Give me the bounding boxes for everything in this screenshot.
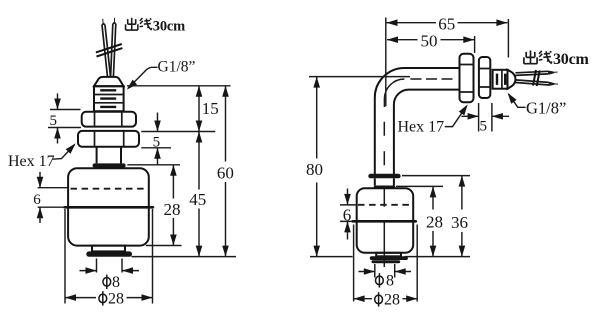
extension line 65 right xyxy=(507,19,509,58)
wire tie band xyxy=(96,44,123,57)
extension 36 top right xyxy=(402,175,470,177)
hex nut 1 xyxy=(82,112,136,127)
dim 28 right xyxy=(426,186,443,256)
svg-text:8: 8 xyxy=(386,273,394,290)
stop ring xyxy=(368,174,400,179)
svg-text:36: 36 xyxy=(451,213,468,232)
washer bar 3 right xyxy=(372,260,401,263)
dim 45 xyxy=(189,132,206,257)
washer bar right xyxy=(370,256,408,260)
float seam line xyxy=(65,206,153,209)
svg-text:80: 80 xyxy=(306,160,323,179)
wire left pair xyxy=(102,19,111,77)
svg-text:6: 6 xyxy=(343,206,352,225)
leader Hex 17 right xyxy=(445,103,471,127)
stem flange xyxy=(93,163,126,167)
dim 65 xyxy=(387,15,508,34)
cap dome right xyxy=(508,70,516,89)
threaded body G1/8 xyxy=(94,86,124,111)
datum line left xyxy=(132,256,237,258)
elbow tube outer xyxy=(375,68,460,174)
datum line right xyxy=(310,256,470,258)
svg-text:15: 15 xyxy=(202,99,219,118)
svg-text:30cm: 30cm xyxy=(153,19,185,35)
leader G1/8 right xyxy=(505,91,526,107)
dim phi8 left xyxy=(80,259,140,292)
svg-text:5: 5 xyxy=(479,119,487,135)
svg-text:45: 45 xyxy=(189,190,206,209)
svg-text:28: 28 xyxy=(426,212,443,231)
label 出线30cm left xyxy=(126,18,186,35)
svg-text:Hex 17: Hex 17 xyxy=(8,153,55,170)
svg-text:G1/8”: G1/8” xyxy=(158,59,196,76)
svg-text:Hex 17: Hex 17 xyxy=(398,118,445,135)
dim 5 nut2 right side xyxy=(141,113,215,165)
float body left xyxy=(68,168,149,245)
dim 6 left xyxy=(33,172,68,223)
float body right xyxy=(357,188,414,253)
tube center line vertical xyxy=(383,122,385,267)
svg-text:28: 28 xyxy=(108,291,124,308)
top extension line left xyxy=(127,85,231,87)
svg-text:G1/8”: G1/8” xyxy=(526,98,566,117)
svg-text:65: 65 xyxy=(438,15,455,34)
extension 28 top right xyxy=(396,185,443,187)
washer step right xyxy=(376,253,401,256)
svg-text:28: 28 xyxy=(164,200,181,219)
stem xyxy=(97,147,121,164)
dim 5 nut1 left xyxy=(48,94,81,144)
float flange right xyxy=(374,186,395,189)
washer step xyxy=(92,246,125,252)
cap dome xyxy=(94,77,124,86)
dim 5 right figure xyxy=(462,103,510,135)
label 出线30cm right xyxy=(524,51,590,69)
hex nut 2 (Hex 17) xyxy=(78,131,139,147)
svg-text:5: 5 xyxy=(153,135,161,151)
dim 36 right xyxy=(451,176,468,257)
dim 6 right xyxy=(340,189,356,240)
hex nut 1 right xyxy=(460,54,474,102)
extension line 50 right xyxy=(474,36,476,53)
dim phi28 right xyxy=(354,225,418,309)
dim 80 xyxy=(306,77,410,257)
threaded body right xyxy=(493,70,508,89)
wire bottom right xyxy=(516,80,559,85)
wire top right xyxy=(516,71,558,75)
dim phi28 left xyxy=(65,209,153,308)
svg-text:6: 6 xyxy=(33,192,41,208)
svg-text:5: 5 xyxy=(50,113,58,129)
dim 28 left xyxy=(127,165,181,246)
leader G1/8 left xyxy=(125,67,158,92)
washer bar xyxy=(86,251,132,256)
float seam right xyxy=(353,220,416,223)
dim 60 xyxy=(217,86,234,257)
svg-text:30cm: 30cm xyxy=(553,51,590,68)
wire right pair xyxy=(111,18,116,77)
tube center line horizontal xyxy=(411,78,458,80)
wire tie right xyxy=(533,70,540,86)
tube below stop ring xyxy=(375,178,394,185)
float dashed line xyxy=(71,188,147,190)
dim phi8 right xyxy=(359,264,412,290)
svg-text:8: 8 xyxy=(112,274,120,291)
hex nut 2 right xyxy=(479,57,490,98)
extension line axis right xyxy=(385,18,387,107)
leader Hex 17 left xyxy=(53,141,78,159)
elbow tube inner xyxy=(394,90,460,175)
tube center line bend arc xyxy=(384,79,404,107)
svg-text:28: 28 xyxy=(384,292,400,309)
dim 50 xyxy=(387,32,474,51)
svg-text:60: 60 xyxy=(217,164,234,183)
dim 15 xyxy=(196,86,219,132)
svg-text:50: 50 xyxy=(421,32,438,51)
float dashed line right xyxy=(358,204,412,206)
